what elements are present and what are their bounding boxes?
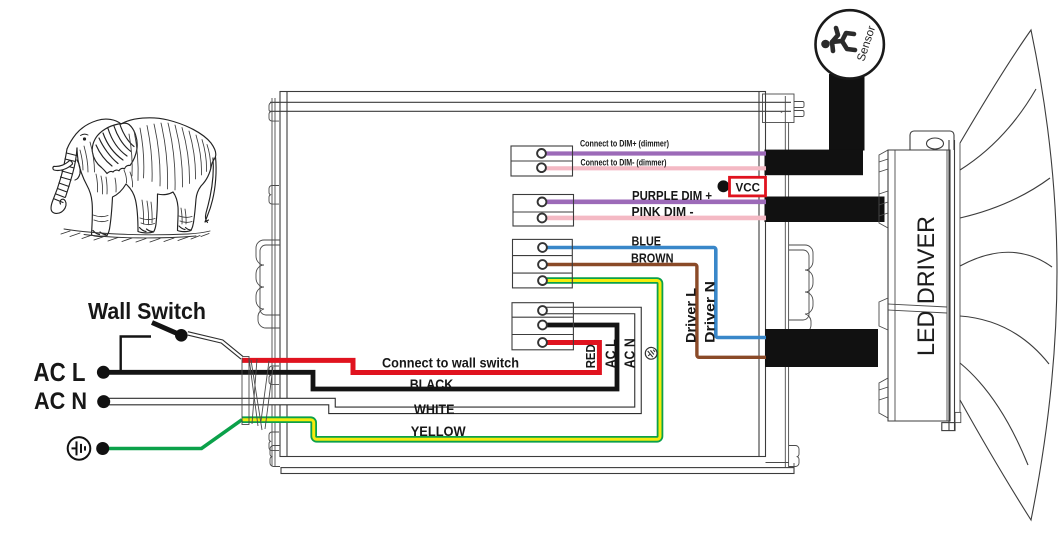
sensor head circle [816,10,884,78]
black band 2 (dim bus) [765,197,885,223]
black band 3 (driver output bus) [765,329,878,367]
ground shadow [61,229,210,242]
elephant ear [92,123,137,173]
trunk ridges [55,153,77,203]
svg-text:PURPLE DIM +: PURPLE DIM + [632,188,712,203]
svg-text:BROWN: BROWN [631,250,674,265]
svg-text:Connect to wall switch: Connect to wall switch [382,355,519,370]
elephant eye [83,137,86,140]
svg-text:AC L: AC L [34,359,86,387]
wire pink dim- (lower) [546,216,766,221]
svg-text:AC N: AC N [622,338,638,368]
black band 1 (sensor to enclosure) [765,150,864,176]
wire purple dim+ (top) [546,151,766,155]
LED driver unit [879,131,961,431]
left strip tab 4 [269,432,279,451]
sensor person icon [821,28,855,51]
elephant [51,118,216,242]
wire yellow-green (inside enclosure) [242,281,660,440]
elephant trunk [51,149,67,213]
wire pink dim- (top) [546,166,766,170]
driver left fins bottom [879,378,888,418]
svg-text:Connect to DIM- (dimmer): Connect to DIM- (dimmer) [581,158,667,168]
left bottom corner bracket [270,446,280,467]
elephant tusk [53,161,73,171]
left mounting strip [271,98,273,466]
wire blue [546,248,766,338]
lamp shade dome [960,30,1057,520]
svg-text:YELLOW: YELLOW [411,424,466,439]
node AC N dot [97,395,110,408]
driver top tab [910,131,954,150]
terminal block 4 [512,303,573,350]
right strip tab bottom [789,446,799,467]
left strip tab 3 [269,366,279,385]
wire black [103,325,617,389]
right spring clip [789,245,813,333]
svg-text:Driver L: Driver L [683,288,699,343]
left strip tab 2 [269,186,279,205]
sensor trunk black cable [829,74,865,151]
enclosure bottom band lines [766,463,795,475]
svg-text:Driver N: Driver N [702,281,718,343]
elephant body outline [77,118,216,237]
earth screw symbol [643,345,660,362]
wire white (outline style) [104,311,638,411]
left strip tab 1 [269,103,279,122]
VCC dot [718,180,730,192]
svg-text:Connect to DIM+ (dimmer): Connect to DIM+ (dimmer) [580,139,669,149]
terminal block 3 [513,239,573,288]
svg-text:Wall Switch: Wall Switch [88,298,206,324]
elephant tail [205,157,216,223]
VCC box [730,177,766,196]
wall switch riser wire [121,337,151,373]
ear inner veins [96,125,134,167]
plate bottom foot [942,423,955,431]
leg wrinkles [93,215,192,225]
left spring clip [256,240,280,328]
wire switch to bundle (double line) [188,333,243,358]
ground symbol [68,437,91,460]
lamp mounting plate [949,140,960,431]
wire red (connect to wall switch) [242,343,599,373]
wire purple dim+ (lower) [546,200,766,205]
twisted wire bundle [242,357,273,431]
wall switch contact dot [175,329,188,342]
node earth dot [96,442,109,455]
right corner bracket [763,94,795,123]
node AC L dot [97,366,110,379]
driver mid strap [879,298,888,330]
elephant mouth [75,160,80,180]
enclosure right wall inner line [758,92,760,457]
right mounting strip [784,96,786,467]
svg-text:WHITE: WHITE [414,402,455,417]
svg-text:PINK DIM -: PINK DIM - [632,204,694,219]
wire green (earth outside) [103,420,242,449]
svg-text:BLACK: BLACK [410,377,454,392]
elephant head/face front [67,121,97,150]
wire brown [546,265,766,358]
toenails [93,226,191,235]
terminal block 2 [513,195,574,227]
enclosure left wall inner line [286,92,288,457]
enclosure outer box [256,92,813,475]
driver left fins top [879,150,888,228]
enclosure top band lines [270,101,791,103]
body hatching [80,123,211,224]
svg-text:RED: RED [583,344,598,368]
terminal block 1 [511,146,573,176]
svg-text:BLUE: BLUE [632,233,662,248]
svg-text:AC L: AC L [603,339,619,368]
wall switch lever [152,323,181,336]
svg-text:LED DRIVER: LED DRIVER [913,216,940,356]
svg-text:AC N: AC N [34,388,87,415]
svg-text:VCC: VCC [736,180,761,194]
